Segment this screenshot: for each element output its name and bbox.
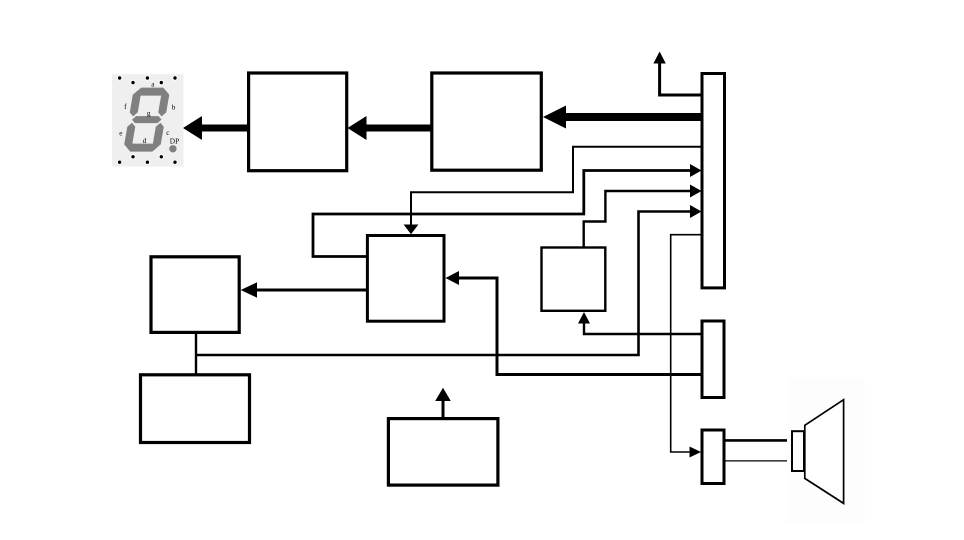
svg-text:e: e <box>119 128 122 137</box>
svg-text:DP: DP <box>170 136 179 145</box>
svg-text:b: b <box>172 102 176 111</box>
svg-text:g: g <box>147 109 151 118</box>
svg-text:d: d <box>143 136 147 145</box>
